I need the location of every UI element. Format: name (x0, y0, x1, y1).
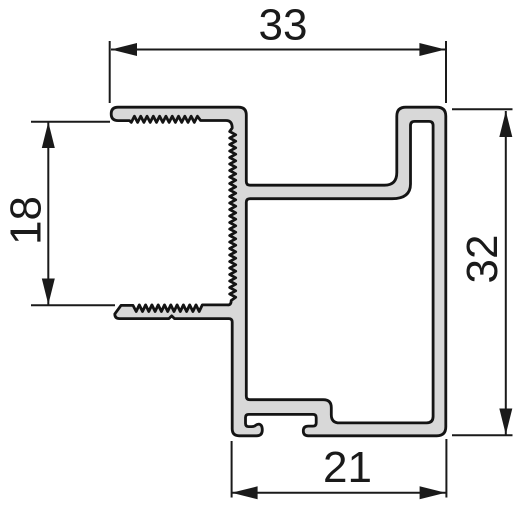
arrows 21 (232, 486, 258, 499)
svg-text:32: 32 (458, 235, 507, 284)
aluminum profile cross-section (outer contour + inner cavity) (111, 107, 446, 436)
arrows 33 (111, 43, 137, 56)
arrows 18 (42, 122, 55, 148)
dim 32 line (505, 111, 507, 435)
dim 33 extension lines (109, 41, 111, 103)
dim 21 extension lines (231, 441, 233, 498)
dim 21 line (232, 492, 446, 494)
svg-text:21: 21 (323, 443, 372, 492)
arrows 32 (499, 111, 512, 137)
dim 18 extension lines (31, 121, 110, 123)
dim 33 line (111, 49, 445, 51)
dim 32 extension lines (452, 108, 513, 110)
svg-text:18: 18 (1, 196, 50, 245)
dim 18 line (47, 122, 49, 305)
svg-text:33: 33 (259, 1, 308, 50)
